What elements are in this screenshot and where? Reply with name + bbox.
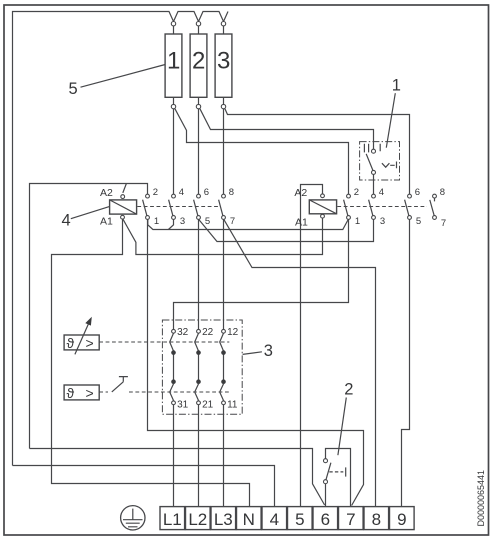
svg-text:3: 3 xyxy=(380,216,385,227)
svg-text:L1: L1 xyxy=(163,510,182,529)
svg-text:L2: L2 xyxy=(188,510,207,529)
svg-text:4: 4 xyxy=(270,510,279,529)
svg-text:8: 8 xyxy=(440,187,445,198)
svg-text:12: 12 xyxy=(227,327,239,338)
svg-text:1: 1 xyxy=(392,76,401,94)
svg-text:4: 4 xyxy=(62,211,71,229)
svg-text:21: 21 xyxy=(202,400,214,411)
svg-text:5: 5 xyxy=(205,216,210,227)
svg-text:4: 4 xyxy=(379,187,384,198)
svg-text:3: 3 xyxy=(180,216,185,227)
svg-text:2: 2 xyxy=(192,48,205,75)
svg-text:ϑ: ϑ xyxy=(67,385,75,401)
svg-text:A1: A1 xyxy=(100,216,113,228)
svg-text:6: 6 xyxy=(415,187,420,198)
svg-text:4: 4 xyxy=(179,187,184,198)
svg-text:1: 1 xyxy=(167,48,180,75)
svg-text:2: 2 xyxy=(153,187,158,198)
svg-text:2: 2 xyxy=(344,381,353,399)
svg-text:L3: L3 xyxy=(214,510,233,529)
svg-text:5: 5 xyxy=(295,510,304,529)
svg-text:32: 32 xyxy=(177,327,189,338)
svg-text:6: 6 xyxy=(204,187,209,198)
svg-text:>: > xyxy=(86,335,94,351)
svg-text:9: 9 xyxy=(397,510,406,529)
svg-text:A1: A1 xyxy=(295,217,308,229)
svg-text:7: 7 xyxy=(441,218,446,229)
svg-text:6: 6 xyxy=(321,510,330,529)
svg-text:8: 8 xyxy=(229,187,234,198)
svg-text:11: 11 xyxy=(227,400,238,411)
svg-text:N: N xyxy=(243,510,255,529)
svg-text:3: 3 xyxy=(264,342,273,360)
svg-text:A2: A2 xyxy=(294,187,307,199)
svg-text:A2: A2 xyxy=(100,187,113,199)
svg-text:5: 5 xyxy=(416,216,421,227)
svg-text:8: 8 xyxy=(372,510,381,529)
svg-text:31: 31 xyxy=(177,400,189,411)
svg-text:ϑ: ϑ xyxy=(67,335,75,351)
svg-text:7: 7 xyxy=(346,510,355,529)
svg-text:7: 7 xyxy=(230,216,235,227)
svg-text:1: 1 xyxy=(355,216,360,227)
svg-text:1: 1 xyxy=(154,216,159,227)
svg-text:2: 2 xyxy=(354,187,359,198)
svg-text:22: 22 xyxy=(202,327,214,338)
svg-text:D0000065441: D0000065441 xyxy=(476,470,486,527)
svg-text:5: 5 xyxy=(69,80,78,98)
svg-text:>: > xyxy=(86,385,94,401)
svg-text:3: 3 xyxy=(217,48,230,75)
